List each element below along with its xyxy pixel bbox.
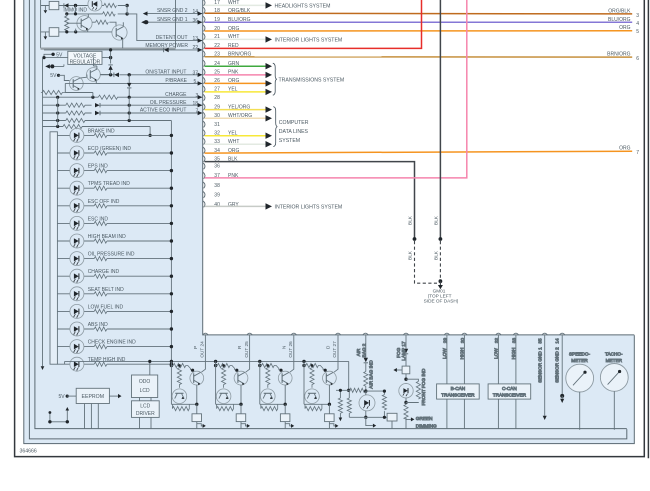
transistor Q4 xyxy=(87,68,101,82)
svg-text:LOW: LOW xyxy=(442,348,447,359)
connector square S2 xyxy=(49,28,59,37)
svg-text:OUT 27: OUT 27 xyxy=(332,341,337,358)
svg-text:TEMP HIGH IND: TEMP HIGH IND xyxy=(88,357,126,363)
svg-text:ACTIVE ECO INPUT: ACTIVE ECO INPUT xyxy=(140,108,187,114)
svg-text:SENSOR GND 2: SENSOR GND 2 xyxy=(554,347,559,383)
svg-text:31: 31 xyxy=(214,122,220,128)
diode down from ON/START xyxy=(128,75,130,97)
svg-text:EEPROM: EEPROM xyxy=(82,394,104,400)
right shunt xyxy=(349,391,387,417)
wire pin35 BLK xyxy=(205,162,415,239)
svg-text:INTERIOR LIGHTS SYSTEM: INTERIOR LIGHTS SYSTEM xyxy=(275,37,343,43)
resistor airbag xyxy=(364,372,368,392)
svg-text:33: 33 xyxy=(512,338,517,344)
airbag pin wire with diode xyxy=(365,335,367,371)
svg-text:TPMS TREAD IND: TPMS TREAD IND xyxy=(88,181,131,187)
right edge wire labels xyxy=(607,9,639,157)
indicator CHECK ENGINE IND xyxy=(57,345,173,349)
CHARGE wire xyxy=(43,96,203,98)
parallel resistor xyxy=(406,379,418,402)
svg-text:ESC OFF IND: ESC OFF IND xyxy=(88,199,120,205)
svg-text:N: N xyxy=(281,346,286,349)
svg-text:364666: 364666 xyxy=(20,449,37,455)
resistor R3 vertical xyxy=(65,14,69,32)
wire pin23 BRN/ORG xyxy=(205,56,633,58)
svg-text:HEADLIGHTS SYSTEM: HEADLIGHTS SYSTEM xyxy=(275,3,331,9)
ground stub under S1 xyxy=(44,6,46,11)
indicator LOW FUEL IND xyxy=(57,309,173,313)
SNSR GND 1 wire xyxy=(146,21,203,23)
pin numbers and wire colour labels xyxy=(214,0,252,208)
driver cell D xyxy=(302,333,341,429)
svg-text:TRANSMISSIONS SYSTEM: TRANSMISSIONS SYSTEM xyxy=(279,78,345,84)
SNSR GND 2 wire xyxy=(147,13,202,15)
svg-text:COMPUTER: COMPUTER xyxy=(279,120,309,126)
indicator TEMP HIGH IND xyxy=(57,362,173,366)
wire pin17 WHT xyxy=(205,4,266,6)
wire pin32 YEL xyxy=(205,135,266,137)
indicator TPMS TREAD IND xyxy=(57,186,173,190)
svg-text:BLU/ORG: BLU/ORG xyxy=(608,17,631,23)
transistor Q2 xyxy=(112,25,127,40)
connector edge arrows (cluster side) xyxy=(198,11,203,115)
svg-text:5V: 5V xyxy=(50,73,57,79)
svg-text:BAG 2: BAG 2 xyxy=(362,343,367,357)
indicator HIGH BEAM IND xyxy=(57,239,173,243)
indicator ESC OFF IND xyxy=(57,204,173,208)
wire pin40 GRY xyxy=(205,205,266,207)
P/BRAKE wire xyxy=(65,83,202,92)
svg-text:OUT 24: OUT 24 xyxy=(200,341,205,358)
wire pin18 ORG/BLK xyxy=(205,12,633,15)
wire detent out path xyxy=(125,6,202,41)
svg-text:P/BRAKE: P/BRAKE xyxy=(165,78,187,84)
diode vertical on 5V rail xyxy=(110,50,112,75)
vertical joining rows xyxy=(58,97,130,126)
svg-text:OUT 26: OUT 26 xyxy=(288,341,293,358)
indicator OIL PRESSURE IND xyxy=(57,257,173,261)
svg-text:BLK: BLK xyxy=(408,215,413,225)
resistor R1 xyxy=(104,3,117,7)
svg-text:SIDE OF DASH): SIDE OF DASH) xyxy=(424,298,459,303)
svg-text:SENSOR GND 1: SENSOR GND 1 xyxy=(537,347,542,383)
svg-text:35: 35 xyxy=(537,338,542,344)
svg-text:DETENT OUT: DETENT OUT xyxy=(156,35,188,41)
node on immo wire xyxy=(74,4,77,7)
svg-text:ESC IND: ESC IND xyxy=(88,216,109,222)
svg-text:INTERIOR LIGHTS SYSTEM: INTERIOR LIGHTS SYSTEM xyxy=(275,204,343,210)
coloured harness wires xyxy=(205,0,633,239)
svg-text:ECO (GREEN) IND: ECO (GREEN) IND xyxy=(88,146,132,152)
svg-text:5: 5 xyxy=(636,29,639,35)
svg-text:LCD: LCD xyxy=(140,404,150,410)
ACTIVE ECO INPUT wire xyxy=(43,112,203,114)
C-CAN transceiver U5 xyxy=(488,384,531,399)
junction nodes row S2 xyxy=(65,30,68,33)
EEPROM output arrow xyxy=(109,395,118,397)
node DETENT junctions xyxy=(125,4,128,7)
svg-text:BRAKE IND: BRAKE IND xyxy=(88,128,115,134)
svg-text:LOW: LOW xyxy=(493,348,498,359)
resistor R2 xyxy=(103,12,116,16)
svg-text:LCD: LCD xyxy=(140,388,150,394)
ground reference network xyxy=(50,411,67,422)
svg-text:LAMP 17: LAMP 17 xyxy=(401,341,406,361)
svg-text:CHECK ENGINE IND: CHECK ENGINE IND xyxy=(88,340,136,346)
svg-text:FRONT FOG IND: FRONT FOG IND xyxy=(421,368,426,406)
ground GM01 xyxy=(413,237,443,289)
svg-text:MEMORY POWER: MEMORY POWER xyxy=(145,43,188,49)
driver cell N xyxy=(258,333,297,429)
svg-text:ORG: ORG xyxy=(619,146,631,152)
sensor grounds xyxy=(537,333,565,420)
C-CAN pins xyxy=(498,335,516,428)
svg-text:C-CAN: C-CAN xyxy=(502,386,517,391)
svg-text:ON/START INPUT: ON/START INPUT xyxy=(145,69,186,75)
LCD DRIVER U3 xyxy=(132,401,160,418)
speedometer gauge xyxy=(566,352,594,430)
dimming resistor xyxy=(406,403,411,429)
right collector bus xyxy=(170,121,172,365)
arrows transmissions group xyxy=(266,63,273,69)
ON/START INPUT wire xyxy=(100,74,202,76)
resistor on regulator base xyxy=(41,90,66,94)
svg-text:38: 38 xyxy=(214,183,220,189)
wires LCD links xyxy=(140,361,152,428)
LED immo xyxy=(88,0,102,11)
wire pin26 ORG xyxy=(205,82,266,84)
svg-text:ORG: ORG xyxy=(619,25,631,31)
svg-text:29: 29 xyxy=(443,338,448,344)
wire S2 row xyxy=(41,31,112,33)
svg-text:SEAT BELT IND: SEAT BELT IND xyxy=(88,287,124,293)
indicator ESC IND xyxy=(57,221,173,225)
svg-text:CHARGE: CHARGE xyxy=(165,92,187,98)
arrows computer data group xyxy=(266,106,273,112)
pull resistors xyxy=(340,390,349,417)
MEMORY POWER wire xyxy=(44,49,202,51)
svg-text:BLK: BLK xyxy=(408,250,413,260)
svg-text:BRN/ORG: BRN/ORG xyxy=(607,52,630,58)
svg-text:EPS IND: EPS IND xyxy=(88,164,108,170)
indicator EPS IND xyxy=(57,169,173,173)
wire pin29 YEL/ORG xyxy=(205,109,266,111)
svg-text:HIGH: HIGH xyxy=(511,348,516,360)
wire pin27 YEL xyxy=(205,91,266,93)
tachometer gauge xyxy=(600,352,628,430)
svg-text:HIGH BEAM IND: HIGH BEAM IND xyxy=(88,234,126,240)
svg-text:3: 3 xyxy=(636,13,639,19)
gear indicator driver cells xyxy=(170,333,341,429)
indicator CHARGE IND xyxy=(57,274,173,278)
svg-text:ODO: ODO xyxy=(139,379,151,385)
connector square S1 xyxy=(49,1,59,9)
wire pin30 WHT/ORG xyxy=(205,117,266,119)
wire pin25 PNK xyxy=(205,74,266,76)
EEPROM lower pins xyxy=(85,404,99,429)
svg-text:B-CAN: B-CAN xyxy=(451,386,466,391)
ground stub under S2 xyxy=(44,32,46,37)
svg-text:SNSR GND 1: SNSR GND 1 xyxy=(157,17,188,23)
svg-text:28: 28 xyxy=(214,95,220,101)
svg-text:METER: METER xyxy=(571,358,588,363)
svg-text:5V: 5V xyxy=(59,394,66,400)
CAN transceivers xyxy=(437,333,531,428)
svg-text:OUT 25: OUT 25 xyxy=(244,341,249,358)
wire pin33 WHT xyxy=(205,143,266,145)
driver cell P xyxy=(170,333,209,429)
OIL PRESSURE wire xyxy=(43,104,203,106)
wire pin19 BLU/ORG xyxy=(205,21,633,23)
indicator BRAKE IND xyxy=(57,133,173,137)
svg-text:LOW FUEL IND: LOW FUEL IND xyxy=(88,304,124,310)
link Q3-Q4 xyxy=(80,75,111,84)
svg-text:AIR BAG IND: AIR BAG IND xyxy=(369,360,374,389)
5V tap xyxy=(44,54,53,57)
svg-text:39: 39 xyxy=(214,192,220,198)
arrow interior lights (pin21) xyxy=(266,36,273,42)
LED front fog xyxy=(399,384,413,398)
wire pin21 WHT xyxy=(205,38,266,40)
fog connector square xyxy=(402,366,410,374)
svg-text:ORG/BLK: ORG/BLK xyxy=(608,9,631,15)
svg-text:37: 37 xyxy=(193,70,199,76)
B-CAN pins xyxy=(447,335,465,428)
svg-text:ABS IND: ABS IND xyxy=(88,322,108,328)
svg-text:BLK: BLK xyxy=(433,250,438,260)
svg-text:P: P xyxy=(193,346,198,349)
bottom supply bus xyxy=(65,361,349,364)
LED airbag xyxy=(359,395,375,411)
svg-text:32: 32 xyxy=(494,338,499,344)
svg-text:SNSR GND 2: SNSR GND 2 xyxy=(157,8,188,14)
LED supply bar xyxy=(50,132,57,364)
svg-text:6: 6 xyxy=(636,56,639,62)
wire pin22 RED xyxy=(205,0,422,48)
fog lamp circuit xyxy=(393,333,437,428)
connector pin arcs 17-40 xyxy=(203,0,205,207)
svg-text:HIGH: HIGH xyxy=(459,348,464,360)
wire pin24 GRN xyxy=(205,65,266,67)
wire Q1 base xyxy=(67,22,81,24)
B-CAN transceiver U4 xyxy=(437,384,480,399)
indicator ABS IND xyxy=(57,327,173,331)
svg-text:TRANSCEIVER: TRANSCEIVER xyxy=(493,392,527,397)
external wiring white area xyxy=(202,0,649,335)
wire BLK from above xyxy=(439,0,441,239)
adjacent page edge xyxy=(647,0,649,458)
transistor Q3 xyxy=(69,77,83,91)
output square xyxy=(387,413,397,421)
wire pin34 ORG xyxy=(205,151,633,153)
svg-text:AIR: AIR xyxy=(356,348,361,356)
svg-text:7: 7 xyxy=(636,150,639,156)
arrow headlights xyxy=(266,2,273,8)
svg-text:5,: 5, xyxy=(194,79,198,85)
indicator ECO (GREEN) IND xyxy=(57,151,173,155)
svg-text:DIMMING: DIMMING xyxy=(416,423,437,428)
system destination arrows and labels xyxy=(266,2,345,210)
svg-text:BLK: BLK xyxy=(433,215,438,225)
svg-text:30: 30 xyxy=(460,338,465,344)
svg-text:14: 14 xyxy=(554,338,559,344)
svg-text:DRIVER: DRIVER xyxy=(136,411,155,417)
air bag indicator circuit xyxy=(336,333,397,429)
indicator rows xyxy=(57,128,173,371)
regulator left output arrow xyxy=(46,64,64,66)
driver cell R xyxy=(214,333,253,429)
cluster box inner border xyxy=(35,0,627,429)
brace transmissions xyxy=(273,63,277,95)
svg-text:SPEEDO-: SPEEDO- xyxy=(569,352,591,357)
svg-text:TRANSCEIVER: TRANSCEIVER xyxy=(441,392,475,397)
unlabeled feed row xyxy=(43,120,172,122)
5V rail xyxy=(44,57,111,59)
unlabeled feed row 2 xyxy=(43,127,151,136)
indicator SEAT BELT IND xyxy=(57,292,173,296)
svg-text:TACHO-: TACHO- xyxy=(605,352,623,357)
wire pin20 ORG xyxy=(205,30,633,32)
svg-text:METER: METER xyxy=(606,358,623,363)
EEPROM U2 xyxy=(76,388,109,403)
wire pin37 PNK xyxy=(205,0,467,178)
svg-text:GREEN: GREEN xyxy=(416,416,433,421)
svg-text:SYSTEM: SYSTEM xyxy=(279,138,300,144)
brace computer data xyxy=(273,107,277,147)
arrow interior lights (pin40) xyxy=(266,203,273,209)
wire immo top xyxy=(41,5,126,7)
svg-text:REGULATOR: REGULATOR xyxy=(70,59,101,65)
ODO LCD display xyxy=(132,375,158,398)
svg-text:4: 4 xyxy=(636,21,639,27)
svg-text:OIL PRESSURE IND: OIL PRESSURE IND xyxy=(88,252,135,258)
svg-text:CHARGE IND: CHARGE IND xyxy=(88,269,120,275)
dashed BLK to ground xyxy=(415,241,438,283)
resistor to airbag node xyxy=(336,389,366,391)
wire immo second xyxy=(67,6,126,14)
voltage regulator U1 xyxy=(68,51,102,64)
IMMO sub-box xyxy=(41,0,176,48)
wire Q1 right / resistor R4 xyxy=(92,22,116,26)
transistor Q1 xyxy=(77,16,92,31)
left supply bus xyxy=(42,58,44,367)
svg-text:OIL PRESSURE: OIL PRESSURE xyxy=(150,100,187,106)
svg-text:36: 36 xyxy=(214,164,220,170)
svg-text:DATA LINES: DATA LINES xyxy=(279,129,309,135)
diode D1 xyxy=(64,3,68,7)
